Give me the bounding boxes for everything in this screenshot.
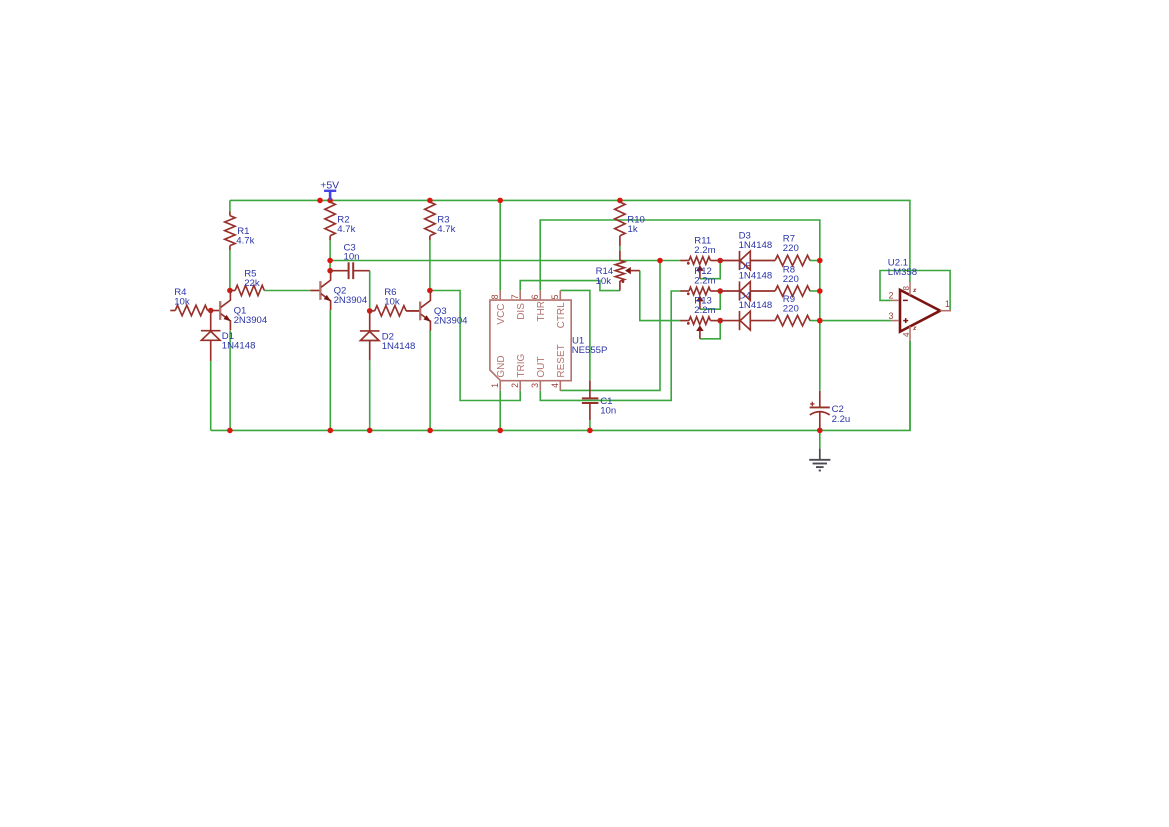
capacitor C2 2.2u polarized: [810, 391, 830, 431]
junction dot R9 / column / op-amp input: [817, 318, 823, 324]
junction dot R1/R5/Q1 collector: [227, 288, 233, 294]
svg-text:7: 7: [510, 294, 520, 299]
wire R2 bottom to C3/Q2 collector node: [329, 240, 331, 271]
wire op-amp feedback: pin2 around to output: [880, 271, 950, 311]
supply +5V symbol: [324, 191, 336, 200]
svg-text:22k: 22k: [244, 278, 260, 289]
pin 4 RESET stub: [559, 381, 561, 391]
svg-text:GND: GND: [496, 355, 507, 377]
trimmer potentiometer R11 2.2m: [680, 257, 720, 279]
svg-text:THR: THR: [536, 301, 547, 322]
svg-text:10k: 10k: [174, 297, 190, 308]
junction dot R8 / column: [817, 288, 823, 294]
svg-text:2N3904: 2N3904: [234, 315, 268, 326]
junction dot +5V rail A: [317, 198, 323, 204]
wire D1 anode to bottom rail corner: [210, 361, 212, 431]
resistor R10 1k: [615, 202, 625, 246]
junction dot rail 555 GND: [497, 428, 503, 434]
wire Q3 emitter to bottom rail: [429, 330, 431, 430]
svg-text:2.2m: 2.2m: [694, 276, 715, 287]
op-amp gate mark bottom: [914, 327, 916, 329]
svg-text:8: 8: [902, 286, 911, 291]
trimmer potentiometer R14 10k: [615, 251, 640, 291]
junction dot C3 left / Q2 collector: [327, 268, 333, 274]
resistor R8 220: [751, 286, 810, 296]
wire op-amp pin4 down to rail: [909, 341, 911, 431]
pin 1 GND stub: [499, 381, 501, 391]
svg-text:220: 220: [783, 304, 799, 315]
op-amp pin 2 inverting stub: [891, 299, 899, 301]
wire 555 DIS pin7 hook to R14 bottom: [520, 281, 615, 291]
wire R1 bottom to Q1 collector node: [229, 250, 231, 291]
wire bottom ground rail: [211, 341, 910, 431]
svg-text:4: 4: [550, 383, 560, 388]
op-amp pin 1 output stub: [940, 310, 951, 312]
wire +5V top rail from R1 to op-amp pin8 riser: [230, 200, 910, 282]
wire C2 bottom dot to ground stem: [819, 430, 821, 448]
svg-text:1k: 1k: [628, 224, 638, 235]
svg-text:220: 220: [783, 274, 799, 285]
trimmer potentiometer R12 2.2m: [680, 287, 720, 309]
op-amp minus sign: [903, 299, 908, 301]
resistor R6 10k: [370, 306, 420, 316]
junction dot rail Q3 emitter: [427, 428, 433, 434]
wire R3 bottom to Q3 collector node: [429, 240, 431, 290]
svg-text:5: 5: [550, 294, 560, 299]
svg-text:4.7k: 4.7k: [236, 235, 254, 246]
wire R13 wiper hook to right terminal: [700, 321, 720, 339]
wire +5V riser R1 top: [229, 200, 231, 211]
diode D3 1N4148: [720, 251, 750, 270]
svg-text:10k: 10k: [384, 297, 400, 308]
svg-text:2N3904: 2N3904: [434, 316, 468, 327]
junction dot R12 right / D5 anode: [717, 288, 723, 294]
svg-text:4.7k: 4.7k: [437, 224, 455, 235]
wire Q3 collector to 555 TRIG pin2: [430, 291, 520, 401]
capacitor C1 10n: [582, 380, 599, 420]
op-amp gate mark top: [914, 289, 916, 291]
svg-text:OUT: OUT: [536, 356, 547, 377]
resistor R7 220: [751, 255, 810, 265]
junction dot R10 top: [617, 198, 623, 204]
pin 2 TRIG stub: [519, 381, 521, 391]
op-amp U2.1 LM358 triangle: [900, 290, 940, 332]
junction dot R3/Q3 collector/TRIG: [427, 288, 433, 294]
svg-text:LM358: LM358: [888, 267, 917, 278]
svg-text:1N4148: 1N4148: [739, 300, 773, 311]
svg-text:4.7k: 4.7k: [337, 224, 355, 235]
pin 3 OUT stub: [539, 381, 541, 391]
svg-text:DIS: DIS: [516, 303, 527, 320]
junction dot R13 right / D4 anode: [717, 318, 723, 324]
wire R9 right lead to column and to op-amp +input: [810, 320, 891, 322]
wire R7 right lead to column: [810, 260, 820, 262]
resistor R2 4.7k: [325, 202, 335, 240]
svg-text:2: 2: [510, 383, 520, 388]
resistor R3 4.7k: [425, 202, 435, 240]
svg-text:10n: 10n: [600, 405, 616, 416]
capacitor C3 10n: [330, 262, 370, 279]
wire 555 OUT pin3 to R12 left: [540, 291, 680, 400]
svg-text:4: 4: [902, 332, 911, 337]
wire 555 RESET pin4 to net at (660,260): [560, 261, 660, 391]
junction dot R3 top: [427, 198, 433, 204]
junction dot R7 / THR column: [817, 258, 823, 264]
diode D5 1N4148: [720, 281, 750, 300]
wire R14 wiper down to R13 left: [640, 271, 681, 321]
wire 555 CTRL pin5 to C1: [560, 290, 590, 380]
svg-text:3: 3: [530, 383, 540, 388]
wire C1 bottom to rail: [589, 420, 591, 430]
wire R11 wiper hook to right terminal: [700, 261, 720, 279]
svg-text:NE555P: NE555P: [572, 345, 608, 356]
svg-text:2N3904: 2N3904: [334, 295, 368, 306]
wire VCC riser 555 pin 8 to +5V rail: [499, 200, 501, 290]
op-amp pin 4 V- stub: [909, 326, 911, 341]
svg-text:2: 2: [888, 291, 893, 301]
svg-text:2.2m: 2.2m: [694, 305, 715, 316]
svg-text:1: 1: [945, 299, 950, 309]
junction dot R4/D1/Q1 base: [208, 308, 214, 314]
svg-text:CTRL: CTRL: [556, 302, 567, 329]
wire R5 right to Q2 base: [264, 290, 310, 292]
svg-text:8: 8: [490, 294, 500, 299]
svg-text:1N4148: 1N4148: [739, 271, 773, 282]
junction dot R11 right / D3 anode: [717, 258, 723, 264]
svg-text:220: 220: [783, 243, 799, 254]
wire R12 wiper hook to right terminal: [700, 291, 720, 309]
junction dot rail Q2 emitter: [328, 428, 334, 434]
pin 5 CTRL stub: [559, 290, 561, 300]
op-amp pin 3 non-inverting stub: [891, 320, 899, 322]
junction dot VCC riser: [497, 198, 503, 204]
wire D2 anode to bottom rail: [369, 360, 371, 430]
svg-text:1N4148: 1N4148: [222, 341, 256, 352]
wire Q1 emitter to bottom rail: [229, 331, 231, 431]
junction dot R2/C3/wire node: [327, 258, 333, 264]
pin 7 DIS stub: [519, 290, 521, 300]
ground symbol GND: [809, 449, 830, 471]
wire R8 right lead to column: [810, 290, 820, 292]
resistor R1 4.7k: [225, 211, 235, 250]
junction dot rail D2: [367, 428, 373, 434]
svg-text:10n: 10n: [344, 251, 360, 262]
op-amp plus sign: [903, 318, 908, 323]
junction dot +5V symbol / R2: [327, 198, 333, 204]
wire 555 GND pin1 to bottom rail: [499, 391, 501, 431]
svg-text:VCC: VCC: [496, 303, 507, 324]
svg-text:RESET: RESET: [556, 344, 567, 377]
junction dot RESET riser on y=260 net: [657, 258, 663, 264]
trimmer potentiometer R13 2.2m: [680, 317, 720, 339]
svg-text:6: 6: [530, 294, 540, 299]
svg-text:2.2u: 2.2u: [832, 414, 851, 425]
svg-text:TRIG: TRIG: [516, 353, 527, 377]
op-amp/IC U1 NE555P body: [490, 300, 571, 381]
pin 6 THR stub: [539, 290, 541, 300]
wire THR net: 555 pin6 up, across, down right column to C2: [540, 220, 820, 391]
op-amp pin 8 V+ stub: [909, 282, 911, 295]
wire R10 bottom to R14 top: [619, 246, 621, 250]
pin 8 VCC stub: [499, 290, 501, 300]
transistor Q2 2N3904: [310, 271, 331, 311]
junction dot rail C2/ground: [817, 428, 823, 434]
svg-text:1N4148: 1N4148: [382, 341, 416, 352]
wire C3 right down to R6/D2 node: [369, 271, 371, 311]
wire Q2-collector net horizontal y=260.5 to R11: [330, 260, 680, 262]
junction dot C3/R6/D2 node: [367, 308, 373, 314]
diode D4 1N4148: [720, 311, 750, 330]
diode D2 1N4148: [360, 311, 380, 360]
resistor R4 10k: [170, 305, 210, 315]
junction dot rail Q1 emitter: [227, 428, 233, 434]
diode D1 1N4148: [201, 311, 221, 361]
svg-text:+5V: +5V: [320, 179, 339, 191]
wire R14 bottom hook start: [615, 290, 620, 292]
wire Q2 emitter to bottom rail: [329, 310, 331, 430]
resistor R9 220: [751, 315, 810, 325]
junction dot rail C1: [587, 428, 593, 434]
svg-text:1: 1: [490, 383, 500, 388]
svg-text:2.2m: 2.2m: [694, 245, 715, 256]
svg-text:10k: 10k: [596, 276, 612, 287]
svg-text:1N4148: 1N4148: [739, 240, 773, 251]
svg-text:3: 3: [888, 311, 893, 321]
transistor Q3 2N3904: [406, 291, 431, 331]
resistor R5 22k: [230, 285, 264, 295]
transistor Q1 2N3904: [211, 291, 231, 331]
